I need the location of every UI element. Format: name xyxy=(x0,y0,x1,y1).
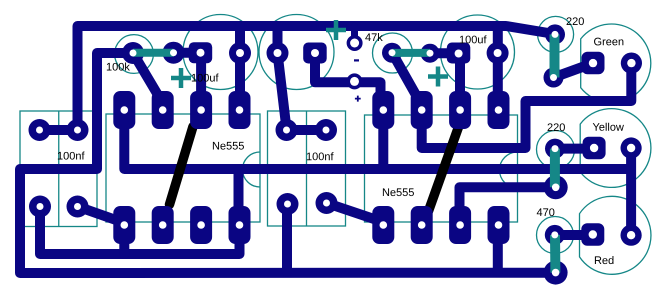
op-amp U2 pin 3 xyxy=(449,91,471,129)
op-amp U2 pin 6 xyxy=(411,206,433,244)
wire mid rail stub to U1 pin xyxy=(234,169,244,210)
wire U2 pin stub to mid rail xyxy=(378,129,388,169)
connector minus label xyxy=(354,59,359,61)
LED D3 outline xyxy=(580,196,651,274)
capacitor C5 divider xyxy=(306,111,308,226)
wire cap C1 round pad column xyxy=(235,26,245,110)
op-amp U2 outline box xyxy=(365,115,518,222)
capacitor C3 plus marker xyxy=(428,67,448,87)
op-amp U1 pin 8 xyxy=(229,206,251,244)
op-amp U2 pin 4 xyxy=(488,91,510,129)
wire cap C2 round pad to C5 pad xyxy=(278,26,287,129)
wire top rail: 100nf C4 pad to 220 R3 pad xyxy=(78,26,555,129)
LED D1 outline xyxy=(581,24,651,103)
wire plus net: C2 square pad to plus pad to U2 pin xyxy=(315,53,381,110)
op-amp U2 pin 5 xyxy=(372,206,394,244)
op-amp U1 pin 5 xyxy=(113,206,135,244)
connector plus pad xyxy=(347,73,363,89)
op-amp U1 pin 4 xyxy=(229,91,251,129)
LED D1 round pad xyxy=(621,53,642,74)
capacitor C1 square pad xyxy=(189,42,213,63)
wire U2 pin to bottom rail xyxy=(493,225,503,272)
resistor R4 outline circle xyxy=(537,131,575,169)
op-amp U1 notch xyxy=(243,152,260,187)
wire cap C3 round pad column xyxy=(493,26,503,110)
capacitor C1 plus marker xyxy=(171,68,191,88)
resistor R5 outline circle xyxy=(537,217,574,254)
capacitor C4 pad 1 xyxy=(29,119,51,141)
LED D2 round pad xyxy=(621,137,642,158)
label Red xyxy=(595,256,614,264)
capacitor C4 outline box xyxy=(20,111,97,227)
resistor R4 pad 2 xyxy=(544,175,568,199)
value label 100uf C1 xyxy=(192,74,219,82)
op-amp U1 pin 6 xyxy=(152,206,174,244)
connector minus pad xyxy=(347,35,363,51)
label Yellow xyxy=(593,123,624,131)
wire 220 R4 pad to U2 pin xyxy=(460,187,556,210)
capacitor C4 pad 2 xyxy=(67,119,89,141)
resistor R4 pad 1 xyxy=(545,139,565,159)
wire ground rail: 100k to bottom rail to 470 pad xyxy=(20,53,556,273)
resistor R1 outline circle xyxy=(115,35,154,74)
LED D2 outline xyxy=(580,109,651,188)
resistor R1 pad 2 xyxy=(163,42,185,64)
op-amp U2 pin 1 xyxy=(372,91,394,129)
label Ne555 U2 xyxy=(383,188,414,196)
wire C4 top pads link xyxy=(40,125,78,135)
resistor R1 pad 1 xyxy=(122,42,144,64)
wire R3 pad to green LED square pad xyxy=(554,64,593,78)
resistor R1 body xyxy=(133,49,174,57)
op-amp U1 pin 2 xyxy=(152,91,174,129)
value label 470 R5 xyxy=(537,208,555,216)
wire C5 pad to bottom rail xyxy=(282,204,292,272)
label Green xyxy=(594,38,623,46)
jumper wire W2 xyxy=(429,127,459,211)
pad holes xyxy=(36,31,636,277)
jumper wire W1 xyxy=(170,127,194,205)
value label 220 R4 xyxy=(548,123,565,131)
capacitor C4 pad 4 xyxy=(67,196,89,218)
LED D3 round pad xyxy=(621,225,642,246)
wire C5 top pads link xyxy=(287,125,326,135)
capacitor C4 divider xyxy=(58,111,60,227)
capacitor C5 pad 1 xyxy=(276,119,298,141)
op-amp U1 pin 1 xyxy=(113,91,135,129)
resistor R2 pad 1 xyxy=(382,43,402,63)
capacitor C2 round pad xyxy=(267,42,289,64)
value label 100nf C5 xyxy=(307,152,334,160)
capacitor C1 outline circle xyxy=(183,15,258,90)
resistor R2 outline circle xyxy=(373,33,413,73)
capacitor C5 outline box xyxy=(268,111,346,226)
op-amp U2 pin 8 xyxy=(488,206,510,244)
wire minus pad stub xyxy=(351,26,358,43)
resistor R3 pad 2 xyxy=(544,68,564,88)
wire yellow LED to red LED xyxy=(626,148,636,235)
value label 100k xyxy=(107,63,130,71)
value label 47k xyxy=(365,33,383,41)
LED D3 square pad xyxy=(581,223,604,246)
resistor R3 outline circle xyxy=(538,16,574,52)
wire R2 right pad to C3 xyxy=(430,48,459,58)
capacitor C3 round pad xyxy=(487,42,509,64)
capacitor C3 outline circle xyxy=(441,15,515,89)
capacitor C2 square pad xyxy=(303,43,327,64)
resistor R3 body xyxy=(550,34,560,77)
op-amp U1 pin 7 xyxy=(190,206,212,244)
LED D2 square pad xyxy=(583,137,606,160)
resistor R2 body xyxy=(392,49,430,57)
wire R1 to U1 pin xyxy=(133,53,163,103)
op-amp U1 pin 3 xyxy=(190,91,212,129)
wire R2 to U2 pin xyxy=(392,53,421,104)
op-amp U2 notch xyxy=(500,152,518,188)
wire C5 pad to U2 pin diagonal xyxy=(327,203,381,221)
value label 100nf C4 xyxy=(58,152,85,160)
capacitor C2 plus marker xyxy=(326,20,346,40)
label Ne555 U1 xyxy=(213,142,244,150)
resistor R5 pad 1 xyxy=(545,225,565,245)
wire U1 pin stub xyxy=(119,243,129,254)
wire C4 pad to U1 pin diagonal xyxy=(78,207,125,223)
LED D1 square pad xyxy=(582,52,605,75)
value label 220 R3 xyxy=(567,17,584,25)
capacitor C5 pad 4 xyxy=(316,192,338,214)
wire R5 470 pad to red LED square pad xyxy=(555,230,590,240)
wire R1 right pad to C1 xyxy=(174,48,202,58)
capacitor C1 round pad xyxy=(229,42,251,64)
wire C4 pad to U1 pin 8 xyxy=(40,207,240,255)
wire mid rail xyxy=(124,110,631,169)
capacitor C2 outline circle xyxy=(259,15,334,90)
connector plus label xyxy=(355,96,361,102)
op-amp U1 outline box xyxy=(106,114,260,222)
op-amp U2 pin 7 xyxy=(449,206,471,244)
capacitor C5 pad 3 xyxy=(277,193,299,215)
wire R4 top pad to yellow LED xyxy=(555,144,590,154)
resistor R5 body xyxy=(550,235,560,273)
resistor R3 pad 1 xyxy=(545,24,565,44)
resistor R2 pad 2 xyxy=(421,44,440,63)
wire C3 square pad to U2 pin xyxy=(455,53,465,105)
value label 100uf C3 xyxy=(460,35,487,43)
capacitor C3 square pad xyxy=(447,43,471,64)
capacitor C4 pad 3 xyxy=(29,196,51,218)
wire C1 square pad to U1 pin xyxy=(196,53,206,105)
wire U2 pin to green LED xyxy=(422,63,632,148)
resistor R4 body xyxy=(550,149,560,188)
op-amp U2 pin 2 xyxy=(411,91,433,129)
resistor R5 pad 2 xyxy=(544,261,568,285)
capacitor C5 pad 2 xyxy=(315,119,337,141)
